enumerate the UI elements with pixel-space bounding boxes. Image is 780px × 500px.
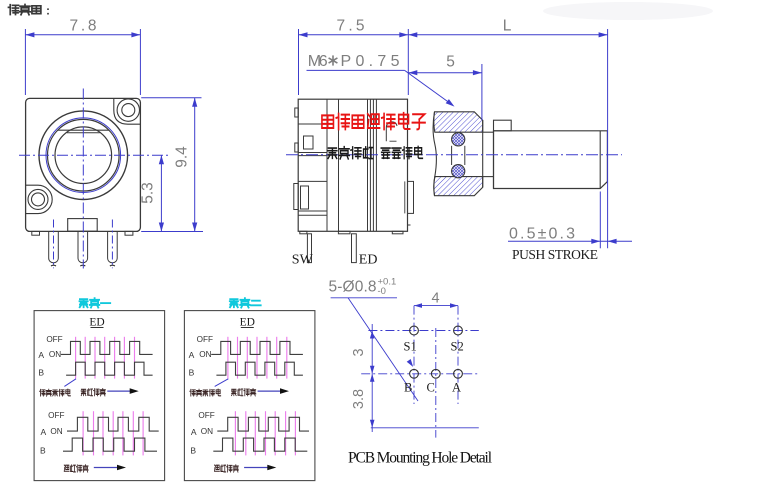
svg-text:B: B <box>189 368 195 378</box>
svg-text:7.5: 7.5 <box>337 18 365 35</box>
svg-text:PUSH STROKE: PUSH STROKE <box>512 247 598 262</box>
svg-text:B: B <box>38 368 44 378</box>
svg-text:A: A <box>452 381 461 395</box>
svg-text:S1: S1 <box>404 340 417 354</box>
svg-text:P0.75: P0.75 <box>341 53 400 70</box>
svg-text:3: 3 <box>351 348 367 356</box>
svg-text:A: A <box>191 427 197 437</box>
svg-text:ED: ED <box>359 253 378 268</box>
svg-text:M6: M6 <box>308 53 328 70</box>
svg-text:PCB Mounting Hole Detail: PCB Mounting Hole Detail <box>348 450 492 467</box>
svg-text:ON: ON <box>49 350 61 359</box>
svg-text:-0: -0 <box>378 286 386 297</box>
svg-text:ED: ED <box>89 317 104 329</box>
svg-text:ON: ON <box>201 427 213 436</box>
svg-text:S2: S2 <box>451 340 464 354</box>
svg-text:ED: ED <box>240 317 255 329</box>
svg-text:B: B <box>40 445 46 455</box>
svg-text:ON: ON <box>199 350 211 359</box>
svg-text:9.4: 9.4 <box>174 146 191 168</box>
svg-text:3.8: 3.8 <box>351 389 367 409</box>
svg-text:OFF: OFF <box>48 411 64 420</box>
svg-text:B: B <box>190 445 196 455</box>
svg-text::: : <box>46 4 50 18</box>
svg-text:5.3: 5.3 <box>140 182 157 204</box>
svg-text:4: 4 <box>431 291 439 307</box>
svg-text:OFF: OFF <box>197 335 213 344</box>
svg-text:5: 5 <box>446 54 455 71</box>
svg-text:C: C <box>427 381 435 395</box>
svg-text:A: A <box>189 350 195 360</box>
svg-text:7.8: 7.8 <box>70 18 97 35</box>
svg-text:SW: SW <box>292 253 314 268</box>
svg-text:OFF: OFF <box>198 411 214 420</box>
svg-text:5-Ø0.8: 5-Ø0.8 <box>329 279 377 296</box>
svg-text:L: L <box>503 18 512 35</box>
svg-text:B: B <box>404 381 412 395</box>
svg-text:A: A <box>38 350 44 360</box>
svg-text:A: A <box>41 427 47 437</box>
svg-text:OFF: OFF <box>46 335 62 344</box>
svg-text:ON: ON <box>50 427 62 436</box>
